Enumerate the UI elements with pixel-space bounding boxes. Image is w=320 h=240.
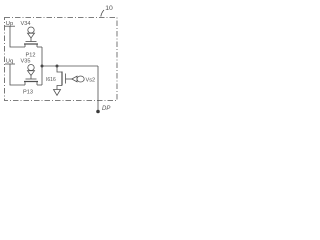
- wire output (right vertical to DP): [97, 66, 99, 110]
- wire junction to I616 source: [57, 66, 62, 72]
- label P13: [23, 90, 33, 96]
- label I616: [46, 77, 56, 83]
- signal source symbol V34 (ellipse + open arrow into gate): [28, 27, 34, 33]
- transistor P12: [24, 42, 38, 48]
- junction dot at I616 tap: [56, 65, 59, 68]
- leader line for 10: [101, 10, 104, 17]
- svg-text:P13: P13: [23, 90, 33, 96]
- wire I616 drain down: [57, 86, 62, 90]
- svg-text:Vs2: Vs2: [86, 77, 96, 83]
- bias input label V34: [21, 21, 31, 27]
- underline for Up: [5, 25, 15, 27]
- signal source symbol V35 (ellipse + open arrow into gate): [28, 65, 34, 71]
- svg-text:I616: I616: [46, 77, 56, 83]
- wire node A to output corner: [42, 65, 98, 67]
- label P12: [26, 53, 36, 59]
- wire drain bus (vertical): [41, 47, 43, 85]
- svg-text:10: 10: [105, 5, 113, 12]
- underline for Uq: [5, 63, 15, 65]
- transistor P13: [24, 79, 38, 85]
- discharge arrow (open, pointing down): [54, 90, 61, 96]
- wire Uq to P13 source: [10, 64, 25, 85]
- reference label 10: [105, 5, 113, 12]
- net label Up: [6, 21, 13, 27]
- junction dot node A: [41, 65, 44, 68]
- output node DP (filled dot): [96, 110, 100, 114]
- svg-text:V35: V35: [21, 59, 31, 65]
- wire Up to P12 source: [10, 27, 25, 48]
- signal input Vs2 (open arrow + ellipse): [72, 76, 77, 82]
- wire P12 drain: [37, 46, 42, 48]
- label DP: [102, 106, 110, 112]
- svg-text:V34: V34: [21, 21, 31, 27]
- wire P13 drain: [37, 84, 42, 86]
- bias input label V35: [21, 59, 31, 65]
- svg-text:DP: DP: [102, 106, 110, 112]
- block boundary 10 (dash-dot box): [5, 18, 118, 101]
- net label Uq: [6, 59, 13, 65]
- transistor I616: [62, 72, 72, 86]
